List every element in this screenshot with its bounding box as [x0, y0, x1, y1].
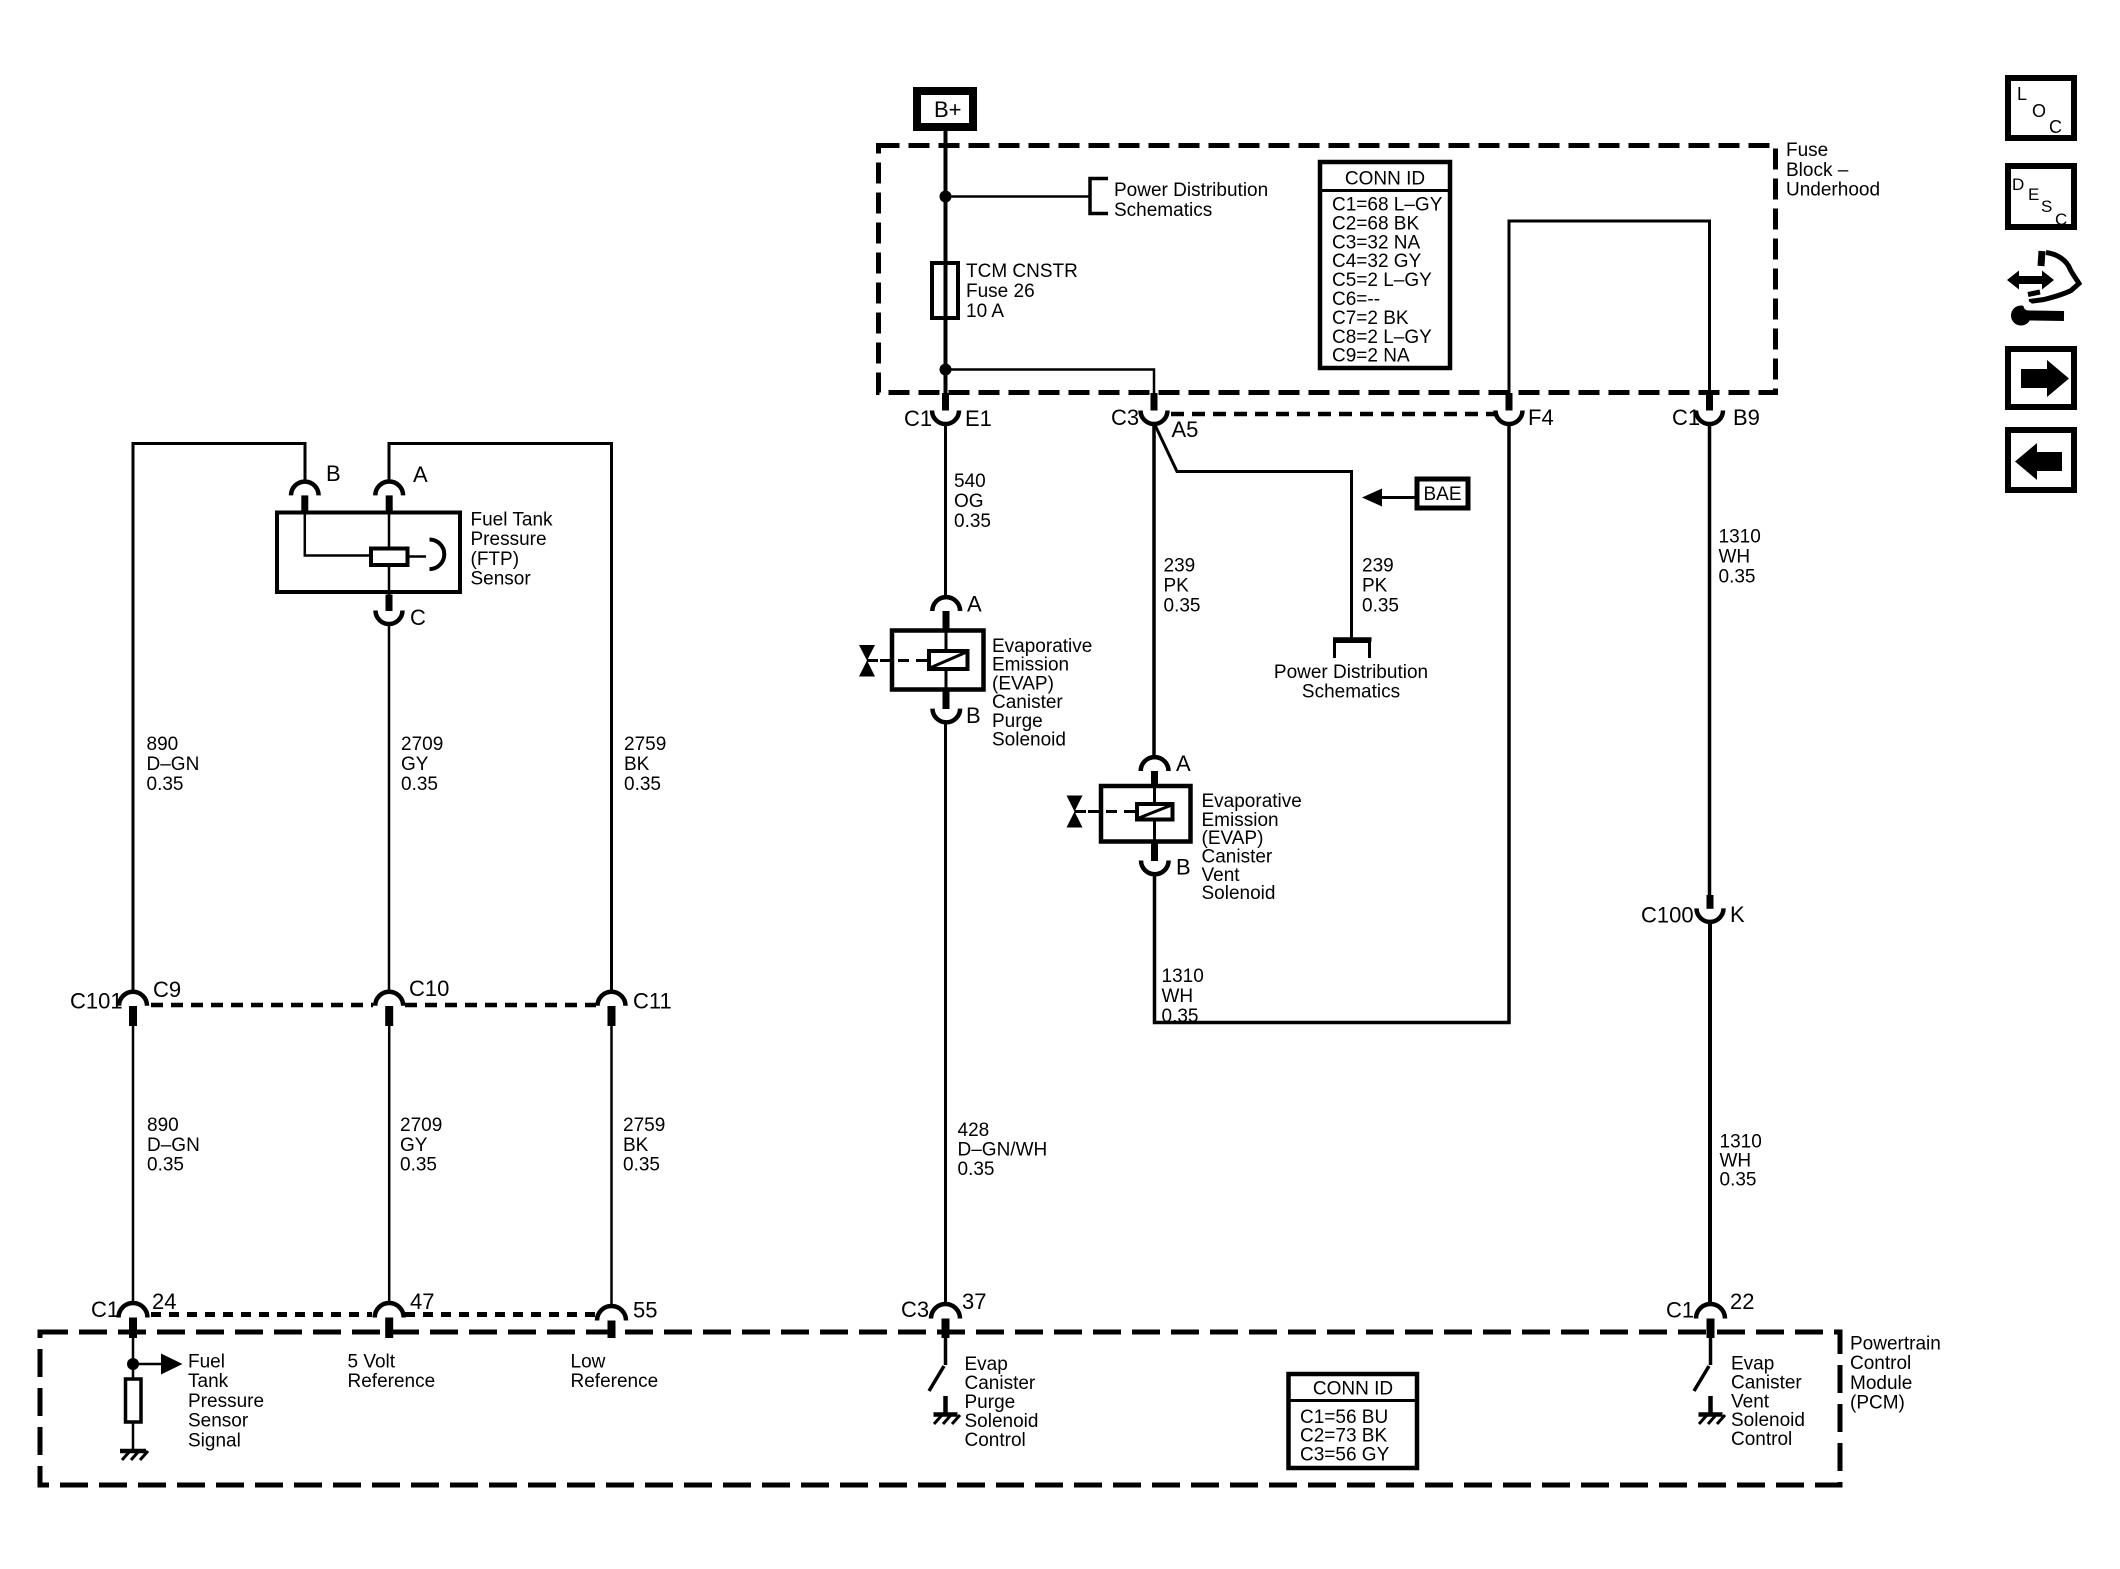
PCM dashed border [40, 1332, 1840, 1485]
svg-text:C11: C11 [633, 989, 672, 1014]
connector pin 47 [375, 1289, 435, 1338]
svg-text:C3=56 GY: C3=56 GY [1300, 1445, 1390, 1466]
connector C10 [375, 976, 449, 1026]
svg-text:Block –: Block – [1786, 160, 1849, 181]
connector C1 pin E1 [904, 393, 992, 431]
CONN ID table PCM [1289, 1374, 1418, 1468]
svg-text:BK: BK [624, 754, 650, 775]
wire resistor to C pin [388, 565, 391, 595]
svg-text:Power Distribution: Power Distribution [1114, 180, 1268, 201]
svg-text:BAE: BAE [1423, 484, 1461, 505]
svg-text:C9=2 NA: C9=2 NA [1332, 346, 1410, 367]
wire E1 to purge solenoid A [944, 425, 947, 599]
svg-text:1310: 1310 [1720, 1132, 1762, 1153]
svg-text:Reference: Reference [571, 1371, 659, 1392]
wire B+ to fuse block [944, 131, 948, 263]
svg-text:D–GN: D–GN [147, 754, 200, 775]
wire vent B to F4 [1155, 425, 1510, 1023]
svg-text:2759: 2759 [623, 1115, 665, 1136]
svg-text:0.35: 0.35 [1719, 567, 1756, 588]
svg-text:10 A: 10 A [966, 301, 1004, 322]
connector C100 pin K [1641, 895, 1745, 928]
wire C100 down to pin 22 [1708, 922, 1712, 1305]
icon route outline [2028, 251, 2079, 302]
connector pin A purge [932, 592, 982, 631]
svg-text:E: E [2028, 185, 2039, 204]
svg-text:CONN ID: CONN ID [1345, 169, 1425, 190]
connector C3 pin A5 [1111, 393, 1198, 442]
svg-text:B: B [1176, 855, 1191, 880]
svg-text:WH: WH [1719, 547, 1751, 568]
svg-text:Fuel Tank: Fuel Tank [471, 510, 554, 531]
svg-text:1310: 1310 [1162, 966, 1204, 987]
svg-text:C3=32 NA: C3=32 NA [1332, 232, 1421, 253]
svg-text:GY: GY [400, 1135, 428, 1156]
svg-text:D: D [2012, 175, 2024, 194]
node junction dot upper [940, 191, 952, 203]
svg-text:Fuel: Fuel [188, 1352, 225, 1373]
svg-text:0.35: 0.35 [624, 774, 661, 795]
svg-text:C101: C101 [70, 989, 123, 1014]
svg-text:C1: C1 [904, 406, 932, 431]
connector pin 55 [597, 1298, 657, 1339]
svg-text:1310: 1310 [1719, 527, 1761, 548]
svg-text:C: C [410, 605, 426, 630]
wire A inside sensor [388, 513, 391, 549]
svg-text:22: 22 [1730, 1289, 1754, 1314]
connector C1 pin 24 [91, 1289, 176, 1338]
B+ battery feed box [917, 91, 973, 127]
svg-text:Power Distribution: Power Distribution [1274, 662, 1428, 683]
svg-text:C4=32 GY: C4=32 GY [1332, 251, 1422, 272]
svg-text:0.35: 0.35 [1164, 596, 1201, 617]
EVAP canister vent solenoid box [1101, 786, 1191, 842]
svg-text:D–GN/WH: D–GN/WH [958, 1140, 1048, 1161]
svg-text:890: 890 [147, 734, 179, 755]
svg-text:428: 428 [958, 1120, 990, 1141]
off-page connector to power distribution [1335, 642, 1370, 659]
svg-text:Low: Low [571, 1352, 606, 1373]
wire A5 down to vent solenoid [1152, 425, 1156, 758]
wire B9 down to C100 [1708, 425, 1712, 896]
connector C101 row: C9 [70, 977, 181, 1026]
resistor element FTP [371, 549, 408, 566]
connector pin B vent [1141, 842, 1191, 880]
svg-text:B: B [326, 461, 341, 486]
svg-text:2709: 2709 [400, 1115, 442, 1136]
svg-text:2709: 2709 [401, 734, 443, 755]
svg-text:24: 24 [152, 1289, 176, 1314]
svg-text:890: 890 [147, 1115, 179, 1136]
svg-text:GY: GY [401, 754, 429, 775]
EVAP canister purge solenoid box [892, 631, 984, 690]
coil vent solenoid [1137, 786, 1173, 842]
icon forward arrow box [2008, 349, 2074, 407]
svg-text:47: 47 [410, 1289, 434, 1314]
svg-text:C2=68 BK: C2=68 BK [1332, 213, 1419, 234]
svg-text:Schematics: Schematics [1114, 200, 1212, 221]
icon wrench [2011, 302, 2064, 326]
svg-text:B: B [966, 703, 981, 728]
svg-text:C5=2 L–GY: C5=2 L–GY [1332, 270, 1432, 291]
switch vent control driver [1694, 1338, 1711, 1391]
svg-text:Evap: Evap [1731, 1354, 1774, 1375]
svg-text:A: A [967, 592, 982, 617]
internal resistor PCM [126, 1379, 142, 1422]
svg-text:Powertrain: Powertrain [1850, 1334, 1941, 1355]
svg-text:C9: C9 [153, 977, 181, 1002]
svg-text:0.35: 0.35 [147, 774, 184, 795]
svg-text:Control: Control [965, 1430, 1026, 1451]
svg-text:0.35: 0.35 [147, 1155, 184, 1176]
switch purge control driver [929, 1338, 946, 1391]
wire top right horizontal A to right branch [389, 444, 612, 992]
svg-text:D–GN: D–GN [147, 1135, 200, 1156]
svg-text:0.35: 0.35 [401, 774, 438, 795]
svg-text:C1: C1 [1666, 1298, 1694, 1323]
svg-text:O: O [2032, 101, 2046, 121]
svg-text:55: 55 [633, 1298, 657, 1323]
svg-text:S: S [2041, 197, 2052, 216]
dotted connector line pins 24-47-55 [151, 1312, 372, 1317]
connector pin A [375, 462, 428, 513]
svg-text:(PCM): (PCM) [1850, 1393, 1905, 1414]
svg-text:C1=56 BU: C1=56 BU [1300, 1407, 1388, 1428]
svg-text:CONN ID: CONN ID [1313, 1379, 1393, 1400]
svg-text:239: 239 [1362, 556, 1394, 577]
svg-text:OG: OG [954, 491, 984, 512]
wire purge B down to pin 37 [944, 723, 947, 1305]
svg-text:Evap: Evap [965, 1354, 1008, 1375]
wire branch A5 to BAE feed [1155, 425, 1352, 638]
svg-text:Tank: Tank [188, 1371, 229, 1392]
svg-text:Fuse 26: Fuse 26 [966, 281, 1035, 302]
svg-text:C2=73 BK: C2=73 BK [1300, 1426, 1387, 1447]
icon LOC box [2008, 78, 2074, 138]
svg-text:TCM CNSTR: TCM CNSTR [966, 261, 1078, 282]
svg-text:C100: C100 [1641, 903, 1694, 928]
svg-text:540: 540 [954, 471, 986, 492]
ground chassis pin22 driver [1699, 1396, 1726, 1424]
svg-text:Fuse: Fuse [1786, 140, 1828, 161]
svg-text:BK: BK [623, 1135, 649, 1156]
connector C1 pin 22 [1666, 1289, 1754, 1338]
svg-text:Purge: Purge [965, 1392, 1016, 1413]
wire fuse to E1 pin [944, 318, 948, 393]
wire to power distribution bracket [946, 195, 1090, 198]
wire loop F4 to B9 inside fuse block [1509, 221, 1710, 393]
ground chassis left [120, 1451, 148, 1460]
svg-text:B+: B+ [934, 97, 962, 122]
svg-text:Canister: Canister [1731, 1372, 1802, 1393]
svg-text:0.35: 0.35 [623, 1155, 660, 1176]
svg-text:Solenoid: Solenoid [992, 730, 1066, 751]
svg-text:Solenoid: Solenoid [965, 1411, 1039, 1432]
svg-text:(FTP): (FTP) [471, 549, 520, 570]
fuse F26 TCM CNSTR [932, 261, 1078, 322]
svg-text:Control: Control [1850, 1353, 1911, 1374]
FTP sensor box [277, 513, 460, 593]
dotted connector line A5 to F4 [1171, 412, 1496, 417]
valve bowtie purge [859, 645, 875, 677]
wire B inside sensor [305, 513, 371, 556]
connector C3 pin 37 [901, 1289, 986, 1338]
svg-text:0.35: 0.35 [958, 1159, 995, 1180]
node junction dot lower [940, 364, 952, 376]
svg-text:5 Volt: 5 Volt [348, 1352, 396, 1373]
svg-text:37: 37 [962, 1289, 986, 1314]
wire top left horizontal to B [133, 444, 305, 992]
wire C11 down to pin 55 [610, 1026, 613, 1306]
BAE box [1417, 479, 1468, 508]
contact arc [430, 540, 445, 570]
svg-text:C10: C10 [409, 976, 449, 1001]
bracket power distribution [1090, 179, 1108, 214]
connector pin C [376, 595, 427, 631]
dashed actuation line purge [880, 659, 929, 662]
svg-text:Schematics: Schematics [1302, 681, 1400, 702]
svg-text:Module: Module [1850, 1373, 1912, 1394]
svg-text:Sensor: Sensor [188, 1411, 249, 1432]
svg-text:K: K [1730, 902, 1745, 927]
fuel tank pressure sensor signal branch [127, 1338, 183, 1379]
svg-text:WH: WH [1720, 1151, 1752, 1172]
connector C11 [598, 989, 672, 1027]
svg-text:Vent: Vent [1731, 1391, 1770, 1412]
svg-text:0.35: 0.35 [1720, 1170, 1757, 1191]
svg-text:0.35: 0.35 [1162, 1006, 1199, 1027]
svg-text:L: L [2017, 84, 2027, 104]
wire junction to A5 pin [946, 370, 1155, 394]
wire C10 down to pin 47 [388, 1026, 391, 1303]
svg-text:C8=2 L–GY: C8=2 L–GY [1332, 327, 1432, 348]
svg-text:Solenoid: Solenoid [1731, 1410, 1805, 1431]
svg-text:Solenoid: Solenoid [1202, 883, 1276, 904]
svg-text:0.35: 0.35 [1362, 596, 1399, 617]
svg-text:C: C [2049, 117, 2062, 137]
svg-text:B9: B9 [1733, 405, 1760, 430]
svg-text:0.35: 0.35 [400, 1155, 437, 1176]
connector pin F4 [1496, 393, 1554, 430]
CONN ID table fuse block [1320, 162, 1450, 368]
valve bowtie vent [1067, 796, 1083, 828]
svg-text:Pressure: Pressure [188, 1391, 264, 1412]
svg-text:PK: PK [1164, 576, 1190, 597]
fuse block dashed border [879, 146, 1776, 393]
svg-text:F4: F4 [1528, 405, 1554, 430]
icon double arrow [2007, 271, 2054, 290]
svg-text:A: A [1176, 751, 1191, 776]
svg-text:C1=68 L–GY: C1=68 L–GY [1332, 195, 1443, 216]
svg-text:239: 239 [1164, 556, 1196, 577]
ground chassis pin37 driver [934, 1396, 961, 1424]
svg-text:C3: C3 [1111, 405, 1139, 430]
svg-text:Control: Control [1731, 1429, 1792, 1450]
svg-text:A5: A5 [1172, 417, 1199, 442]
icon DESC box [2008, 166, 2074, 229]
svg-text:PK: PK [1362, 576, 1388, 597]
connector pin B purge [933, 690, 981, 729]
dashed actuation line vent [1088, 810, 1137, 813]
svg-text:Sensor: Sensor [471, 569, 532, 590]
svg-text:C7=2 BK: C7=2 BK [1332, 308, 1409, 329]
svg-text:C: C [2055, 210, 2067, 229]
icon back arrow box [2008, 430, 2074, 490]
wire C down to C10 [388, 624, 391, 992]
svg-text:Reference: Reference [348, 1371, 436, 1392]
wire C9 down to pin 24 [132, 1026, 135, 1303]
svg-text:A: A [413, 462, 428, 487]
svg-text:0.35: 0.35 [954, 511, 991, 532]
BAE arrow [1381, 496, 1416, 499]
svg-text:Canister: Canister [965, 1373, 1036, 1394]
wiper wire to contact arc [408, 555, 427, 558]
svg-text:WH: WH [1162, 986, 1194, 1007]
svg-text:Pressure: Pressure [471, 529, 547, 550]
svg-text:E1: E1 [965, 406, 992, 431]
dashed inline connector line C101 [151, 1003, 373, 1008]
svg-text:C6=--: C6=-- [1332, 289, 1380, 310]
wire resistor to ground [132, 1422, 135, 1450]
connector C1 pin B9 [1672, 393, 1760, 430]
connector pin B [291, 461, 341, 513]
coil purge solenoid [929, 631, 968, 690]
svg-text:2759: 2759 [624, 734, 666, 755]
svg-text:Underhood: Underhood [1786, 180, 1880, 201]
svg-text:C3: C3 [901, 1297, 929, 1322]
svg-text:Signal: Signal [188, 1430, 241, 1451]
svg-text:C1: C1 [1672, 405, 1700, 430]
connector pin A vent [1141, 751, 1191, 786]
svg-text:C1: C1 [91, 1297, 119, 1322]
